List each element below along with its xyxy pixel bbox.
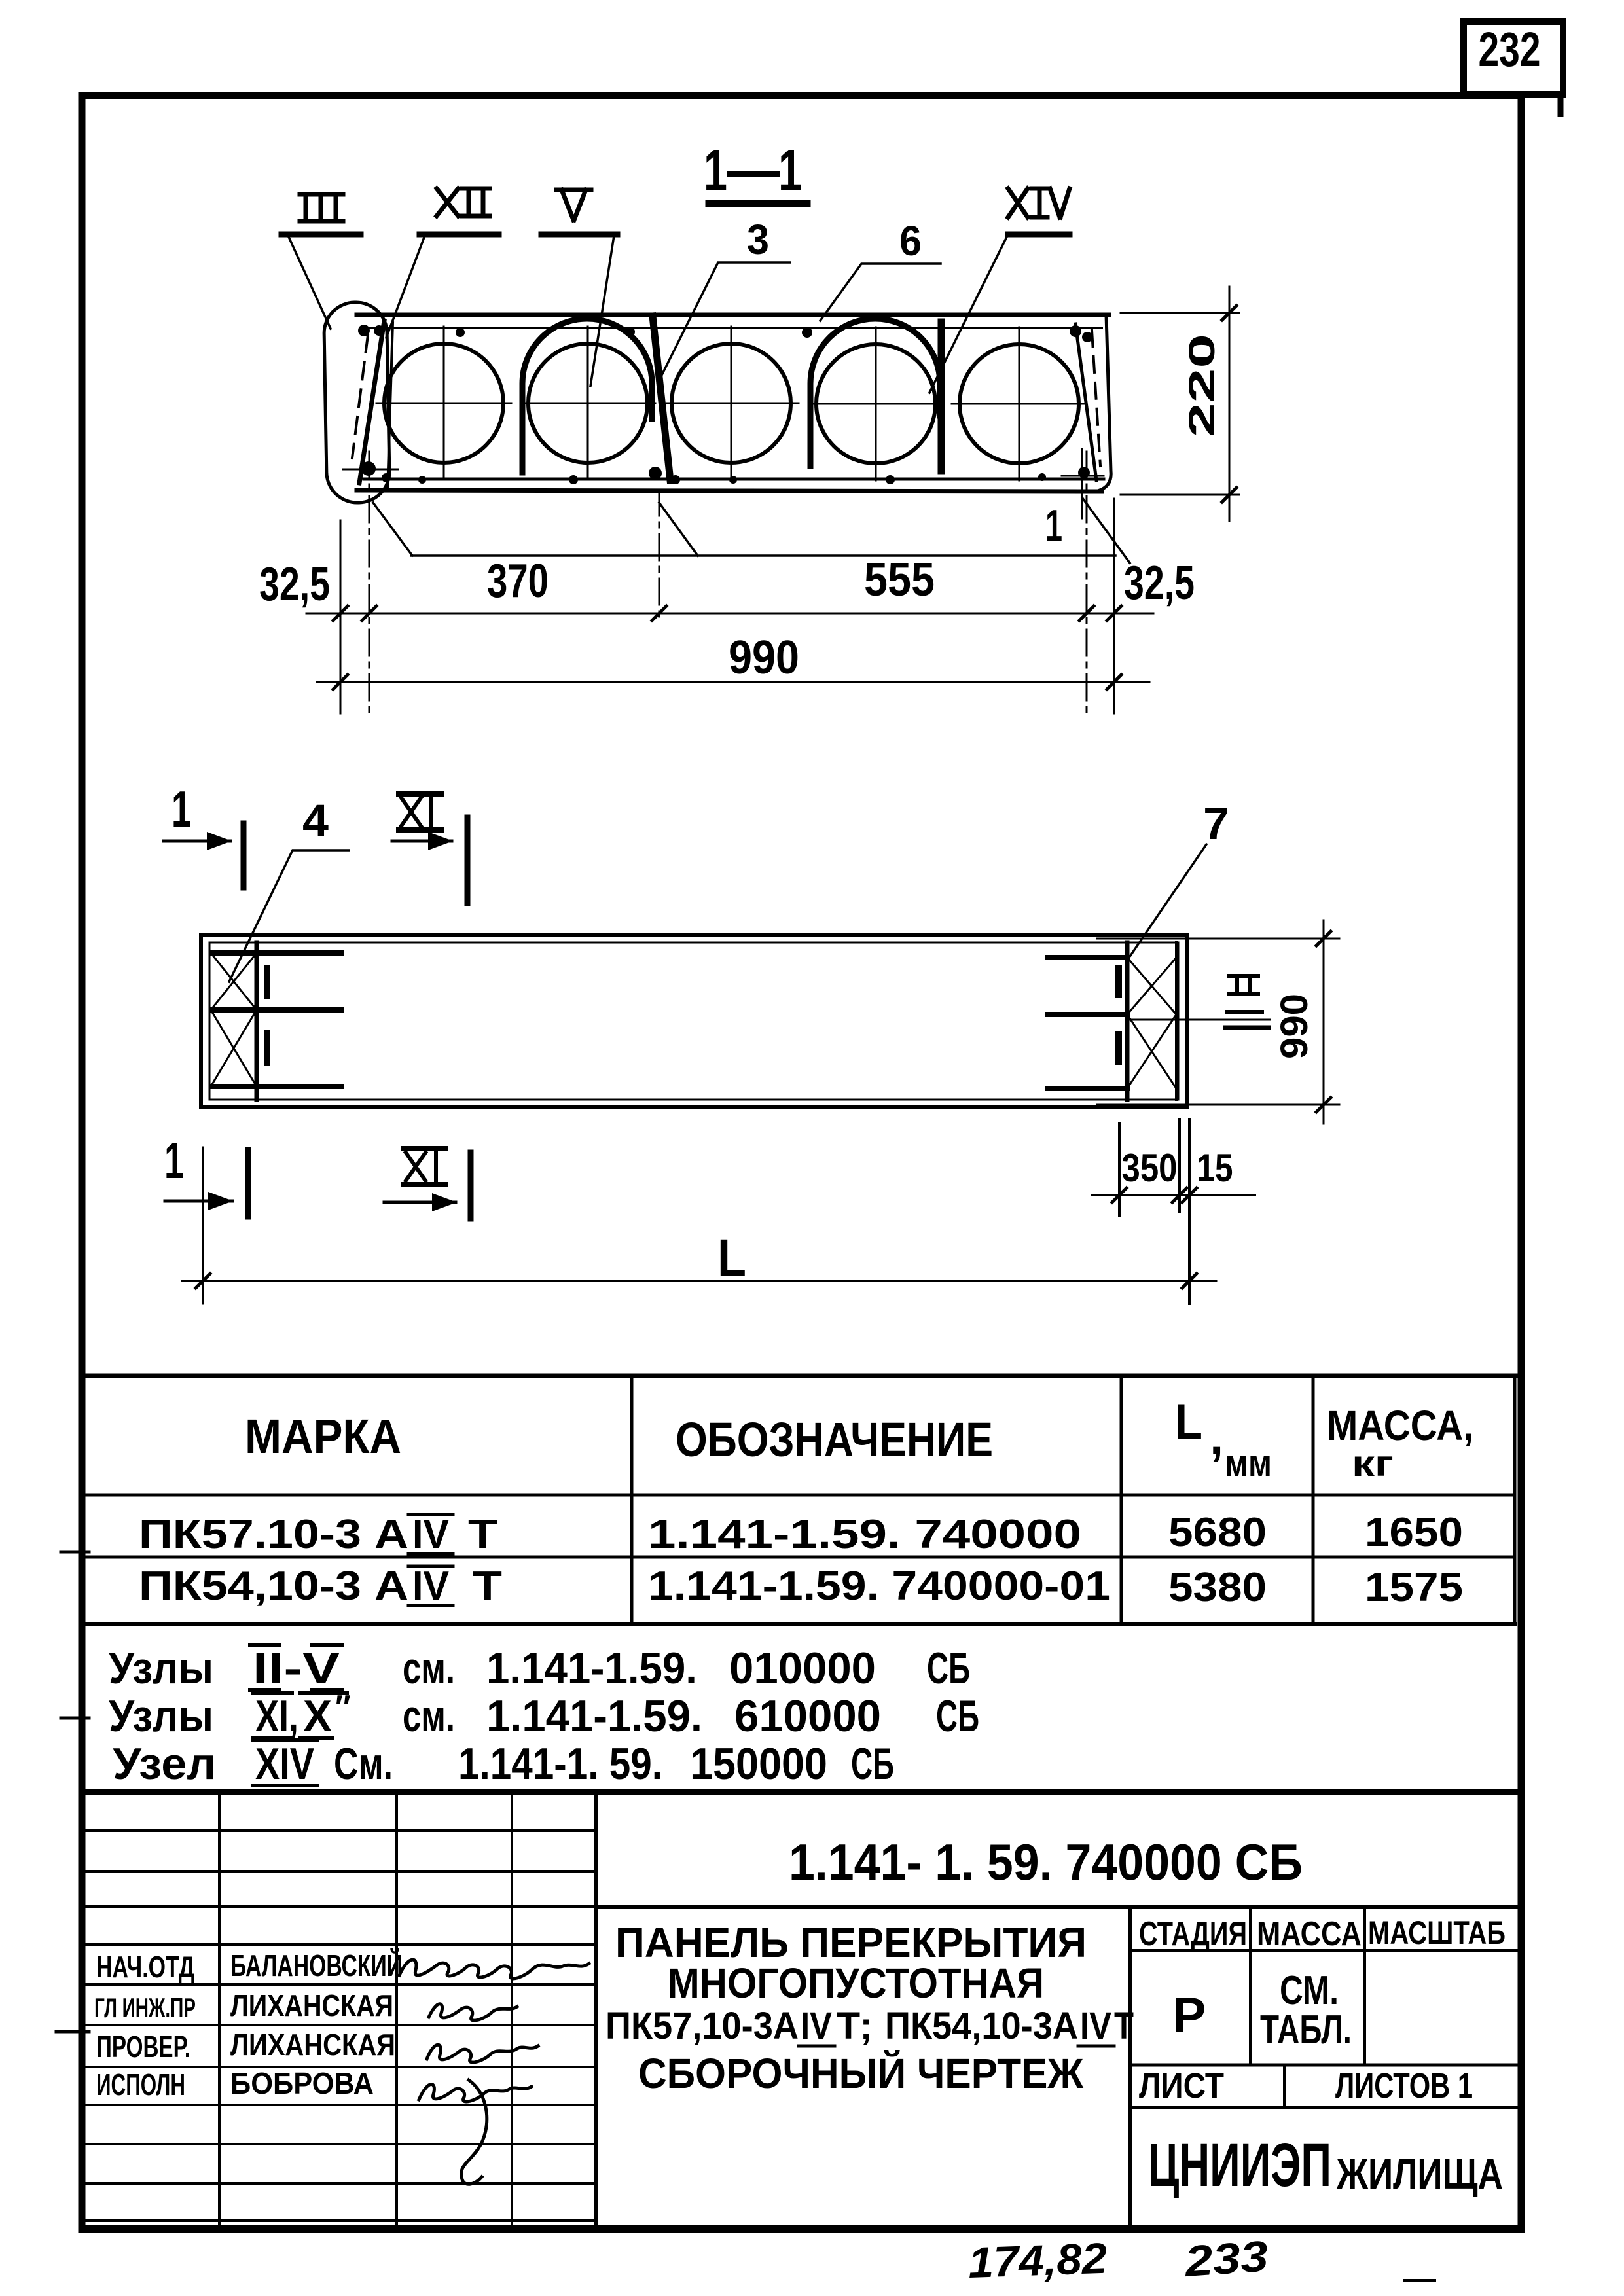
dim chain line (306, 613, 1153, 615)
core hole circle 4 (816, 344, 935, 463)
svg-text:Узел: Узел (113, 1739, 216, 1789)
leader III (289, 237, 331, 329)
svg-text:1575: 1575 (1365, 1565, 1463, 1610)
label II (roman, hand drawn) (1229, 976, 1258, 994)
right hidden dashed line (1092, 331, 1100, 466)
left I mark 1 (264, 969, 270, 996)
svg-text:ЖИЛИЩА: ЖИЛИЩА (1336, 2149, 1503, 2198)
svg-text:1650: 1650 (1365, 1510, 1463, 1555)
label V (roman, hand drawn) (556, 190, 591, 220)
right I mark 2 (1115, 1034, 1122, 1062)
svg-text:ЛИСТОВ 1: ЛИСТОВ 1 (1335, 2066, 1473, 2106)
label III (roman, hand drawn) (300, 194, 343, 221)
table top line (82, 1374, 1521, 1378)
registration tick left 3 (56, 2030, 89, 2034)
left end slant face (359, 321, 384, 483)
table column line 3 (1312, 1376, 1315, 1624)
slab top outer edge (357, 313, 1109, 317)
svg-text:IV: IV (801, 2005, 832, 2047)
core 5 centerlines (952, 403, 1087, 405)
svg-text:ЛИХАНСКАЯ: ЛИХАНСКАЯ (230, 2028, 395, 2062)
dim ticks chain (333, 606, 1121, 620)
svg-text:010000: 010000 (729, 1643, 876, 1693)
table row line (82, 1556, 1515, 1559)
svg-text:СБ: СБ (936, 1691, 979, 1741)
left I mark 2 (264, 1033, 270, 1063)
left X cross top (211, 953, 257, 1010)
label XIV (roman, hand drawn) (1008, 188, 1070, 217)
sheet row (1130, 2064, 1521, 2067)
plan dim 990 right (1097, 938, 1339, 940)
slab top inner edge (364, 327, 1102, 329)
svg-text:1: 1 (171, 780, 191, 838)
svg-text:1.141- 1. 59. 740000 СБ: 1.141- 1. 59. 740000 СБ (789, 1833, 1303, 1891)
label XII (roman, hand drawn) (437, 188, 490, 216)
svg-text:ПК57.10-3 А: ПК57.10-3 А (139, 1512, 408, 1557)
signature squiggle 4 (419, 2080, 532, 2184)
svg-text:ПРОВЕР.: ПРОВЕР. (96, 2030, 190, 2064)
left anchor bar bottom (212, 1084, 341, 1089)
svg-text:МАРКА: МАРКА (245, 1409, 401, 1463)
svg-text:4: 4 (302, 795, 329, 846)
svg-text:Т;: Т; (837, 2005, 873, 2047)
dim 220 right (1121, 312, 1239, 314)
svg-text:232: 232 (1479, 22, 1541, 77)
svg-text:990: 990 (1273, 994, 1316, 1059)
stirrup loop over core 2 (522, 319, 652, 473)
svg-text:32,5: 32,5 (259, 558, 330, 611)
svg-text:ПК54,10-3А: ПК54,10-3А (885, 2005, 1078, 2047)
svg-text:1: 1 (778, 138, 802, 204)
transverse bar between cores 4-5 (938, 322, 945, 471)
svg-text:МАСШТАБ: МАСШТАБ (1368, 1914, 1506, 1951)
svg-text:1.141-1.59.: 1.141-1.59. (486, 1691, 702, 1741)
slab bottom inner edge (364, 478, 1104, 481)
signature grid horizontals (82, 1831, 596, 2221)
svg-text:220: 220 (1181, 334, 1222, 437)
svg-text:1.141-1.59.: 1.141-1.59. (486, 1643, 697, 1693)
svg-text:610000: 610000 (734, 1691, 881, 1741)
svg-text:НАЧ.ОТД: НАЧ.ОТД (96, 1950, 194, 1984)
plan inner rectangle (209, 942, 1178, 1100)
svg-text:см.: см. (403, 1643, 455, 1693)
svg-text:см.: см. (403, 1691, 455, 1741)
title/stamp divider vertical (1128, 1907, 1132, 2228)
svg-text:1.141-1.59. 740000: 1.141-1.59. 740000 (648, 1512, 1081, 1557)
svg-text:ЛИХАНСКАЯ: ЛИХАНСКАЯ (230, 1988, 393, 2022)
svg-text:555: 555 (864, 554, 935, 606)
right I mark 1 (1115, 969, 1122, 995)
core hole circle 1 (384, 344, 503, 463)
svg-text:СБОРОЧНЫЙ ЧЕРТЕЖ: СБОРОЧНЫЙ ЧЕРТЕЖ (638, 2049, 1084, 2097)
svg-text:IV: IV (412, 1564, 449, 1609)
svg-text:5680: 5680 (1168, 1510, 1267, 1555)
left anchor bar middle (212, 1007, 341, 1013)
signature squiggle 1 (399, 1960, 589, 1979)
svg-text:1: 1 (1045, 501, 1062, 550)
registration tick left 1 (61, 1551, 89, 1554)
right inner end line (1175, 942, 1178, 1100)
section mark XI bottom (roman, hand drawn) (406, 1153, 436, 1181)
svg-text:Р: Р (1173, 1988, 1206, 2043)
svg-text:кг: кг (1352, 1443, 1394, 1484)
svg-text:См.: См. (334, 1739, 393, 1789)
core 3 centerlines (664, 403, 799, 404)
svg-text:350: 350 (1122, 1146, 1178, 1190)
svg-text:Узлы: Узлы (109, 1643, 213, 1693)
svg-text:1: 1 (704, 138, 727, 204)
leader XII (386, 236, 425, 338)
section II cut line (1127, 1019, 1270, 1021)
svg-text:МАССА: МАССА (1257, 1915, 1362, 1953)
svg-text:,: , (1210, 1410, 1223, 1465)
right end zone vertical (1125, 942, 1130, 1100)
svg-text:233: 233 (1182, 2231, 1270, 2286)
plan dims 350 / 15 (1118, 1123, 1121, 1216)
table bottom line (82, 1622, 1515, 1626)
core hole circle 3 (672, 344, 791, 463)
signature squiggle 3 (427, 2045, 538, 2062)
svg-text:150000: 150000 (690, 1739, 827, 1789)
svg-text:МНОГОПУСТОТНАЯ: МНОГОПУСТОТНАЯ (668, 1960, 1044, 2007)
svg-text:СБ: СБ (927, 1643, 970, 1693)
transverse bar item 3 (653, 316, 670, 480)
svg-text:Т: Т (473, 1564, 502, 1609)
svg-text:IV: IV (1080, 2005, 1111, 2047)
svg-text:Узлы: Узлы (109, 1691, 213, 1741)
svg-text:СБ: СБ (851, 1739, 894, 1789)
svg-text:990: 990 (729, 632, 799, 684)
core hole circle 2 (528, 344, 647, 463)
small mark bottom right (1404, 2279, 1435, 2282)
svg-text:ИСПОЛН: ИСПОЛН (96, 2068, 185, 2102)
right anchor bar middle (1047, 1012, 1127, 1017)
left hidden dashed line (352, 335, 368, 458)
stirrup loop over core 4 (810, 319, 940, 466)
svg-text:174,82: 174,82 (967, 2234, 1108, 2287)
left anchor bar top (212, 950, 341, 956)
rebar dots bottom (361, 461, 376, 476)
signature squiggle 2 (429, 2004, 517, 2020)
line under designation (596, 1905, 1521, 1909)
svg-text:ТАБЛ.: ТАБЛ. (1260, 2007, 1352, 2053)
svg-text:СМ.: СМ. (1280, 1968, 1339, 2013)
svg-text:ПК54,10-3 А: ПК54,10-3 А (139, 1564, 408, 1609)
svg-text:3: 3 (747, 216, 769, 263)
left montage loop capsule (323, 302, 389, 503)
table header bottom line (82, 1494, 1515, 1497)
svg-text:ОБОЗНАЧЕНИЕ: ОБОЗНАЧЕНИЕ (676, 1412, 993, 1467)
table column line 1 (630, 1376, 634, 1624)
svg-text:6: 6 (899, 217, 922, 264)
svg-text:МАССА,: МАССА, (1327, 1402, 1473, 1449)
leader V (590, 236, 614, 386)
svg-text:1: 1 (164, 1132, 184, 1189)
extension lines bottom dims (340, 520, 342, 713)
svg-text:ГЛ ИНЖ.ПР: ГЛ ИНЖ.ПР (94, 1992, 196, 2023)
core 4 centerlines (808, 403, 943, 405)
svg-text:32,5: 32,5 (1124, 557, 1195, 609)
svg-text:Х: Х (303, 1691, 332, 1741)
svg-text:II-V: II-V (253, 1643, 340, 1693)
table column line 2 (1120, 1376, 1123, 1624)
right end outer edge (1100, 315, 1111, 490)
svg-text:ЛИСТ: ЛИСТ (1139, 2066, 1224, 2106)
bottom frame line (82, 2225, 1521, 2231)
stadia header lines (1130, 1949, 1521, 1952)
title block top line (82, 1789, 1521, 1795)
svg-text:L: L (717, 1229, 746, 1288)
svg-text:XI,: XI, (255, 1691, 298, 1741)
rebar dots top (358, 325, 1092, 484)
page number box 232 (1464, 22, 1563, 94)
svg-text:Т: Т (468, 1512, 497, 1557)
plan dim L (202, 1147, 204, 1304)
right X cross bottom (1127, 1014, 1176, 1088)
corner crosshair bottom-right (1062, 475, 1104, 477)
svg-text:1.141-1.59. 740000-01: 1.141-1.59. 740000-01 (648, 1564, 1110, 1609)
svg-text:15: 15 (1197, 1146, 1233, 1190)
svg-text:мм: мм (1225, 1442, 1272, 1484)
plan outer rectangle (201, 935, 1187, 1107)
left end zone vertical (255, 942, 259, 1100)
right end slant face (1075, 324, 1096, 480)
svg-text:БАЛАНОВСКИЙ: БАЛАНОВСКИЙ (230, 1948, 403, 1982)
svg-text:7: 7 (1203, 798, 1229, 849)
item 1 leader line (411, 554, 1115, 557)
svg-text:БОБРОВА: БОБРОВА (230, 2066, 374, 2100)
svg-text:Т: Т (1114, 2005, 1134, 2047)
stub under page box (1558, 96, 1564, 114)
svg-text:IV: IV (412, 1512, 449, 1557)
svg-text:370: 370 (487, 555, 549, 607)
svg-text:5380: 5380 (1168, 1565, 1267, 1610)
svg-text:L: L (1175, 1394, 1202, 1450)
leader XIV (929, 234, 1008, 393)
table right edge (1513, 1376, 1517, 1624)
svg-text:XIV: XIV (255, 1739, 314, 1789)
svg-text:ЦНИИЭП: ЦНИИЭП (1148, 2130, 1331, 2200)
left end inner line (388, 323, 393, 491)
corner crosshair bottom-left (343, 469, 398, 471)
section mark XI top (roman, hand drawn) (401, 798, 431, 826)
right X cross top (1127, 958, 1176, 1014)
svg-text:1.141-1. 59.: 1.141-1. 59. (458, 1739, 662, 1789)
right anchor bar bottom (1047, 1086, 1127, 1091)
core 2 centerlines (520, 403, 655, 404)
dim 990 line (317, 681, 1149, 683)
svg-text:ПК57,10-3А: ПК57,10-3А (605, 2005, 799, 2047)
registration tick left 2 (61, 1717, 89, 1720)
signature grid verticals (218, 1792, 221, 2228)
core hole circle 5 (960, 344, 1079, 463)
left X cross bottom (211, 1010, 257, 1086)
slab bottom outer edge (357, 490, 1102, 492)
svg-text:СТАДИЯ: СТАДИЯ (1139, 1915, 1247, 1953)
core 1 centerlines (376, 403, 511, 404)
right anchor bar top (1047, 955, 1127, 960)
